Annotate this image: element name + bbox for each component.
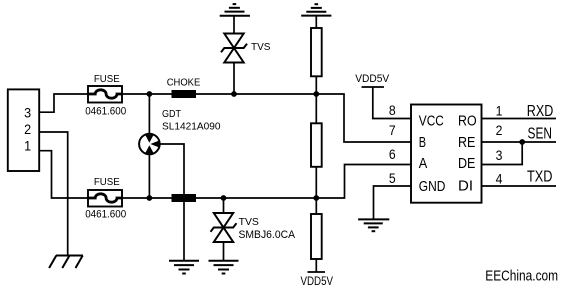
fuse F1 body [88, 86, 122, 103]
VDD5V power bar (bottom) [308, 271, 326, 273]
wire R1 to top bus [315, 76, 317, 94]
fuse F2 element (sine) [88, 194, 122, 202]
op-amp U1 (RS-485 transceiver) body [411, 105, 482, 203]
VDD5V power bar (top) [362, 86, 385, 88]
resistor R2 [311, 123, 322, 167]
svg-text:EEChina.com: EEChina.com [485, 268, 558, 285]
connector J1 body [8, 89, 39, 171]
wire pin 1 RO to RXD [482, 118, 557, 120]
wire top bus fuse to corner [122, 94, 411, 142]
wire pin1 stub to bottom bus [39, 151, 88, 198]
TVS D1 bottom triangle [224, 48, 243, 63]
wire pin3 stub to top bus [39, 94, 88, 112]
TVS D1 zener bar [221, 44, 247, 53]
svg-text:TVS: TVS [239, 216, 259, 228]
fuse F2 body [88, 190, 122, 207]
wire pin 5 to ground [374, 186, 412, 219]
fuse F1 element (sine) [88, 90, 122, 98]
node junction bottom R column [313, 195, 319, 201]
svg-text:8: 8 [389, 103, 396, 118]
TVS D2 zener bar [211, 223, 237, 232]
wire TVS2 to ground [223, 242, 225, 261]
resistor R3 [311, 214, 322, 259]
svg-text:1: 1 [24, 138, 31, 154]
wire pin 4 DI to TXD [482, 185, 557, 187]
wire R2 to bottom bus [315, 167, 317, 198]
wire pin 2 RE to SEN [482, 141, 557, 143]
svg-text:B: B [419, 135, 426, 151]
svg-text:TXD: TXD [527, 168, 553, 185]
node junction top GDT [147, 91, 153, 97]
svg-text:FUSE: FUSE [94, 73, 120, 85]
ground (top of TVS1, inverted) [220, 4, 250, 16]
svg-text:6: 6 [389, 147, 396, 162]
svg-text:3: 3 [496, 148, 503, 163]
ground (top of R1, inverted) [301, 4, 331, 15]
wire VDD5V to pin 8 [373, 87, 411, 119]
svg-text:SEN: SEN [528, 126, 553, 143]
svg-text:RO: RO [458, 114, 477, 130]
node junction SEN/DE [519, 139, 525, 145]
svg-text:VDD5V: VDD5V [301, 276, 334, 288]
wire TVS1 to top bus [233, 63, 235, 95]
wire GDT bottom lead [148, 154, 150, 198]
svg-text:0461.600: 0461.600 [85, 209, 126, 221]
wire SEN junction to pin 3 DE [482, 142, 523, 165]
svg-text:CHOKE: CHOKE [167, 76, 201, 88]
choke L1 winding (bottom) [172, 194, 197, 202]
node junction bottom GDT [147, 195, 153, 201]
wire GDT top lead [148, 94, 150, 134]
TVS D2 top triangle [214, 213, 233, 228]
svg-text:TVS: TVS [251, 41, 271, 53]
wire top bus to R2 [315, 94, 317, 123]
wire R3 to VDD5V bar [315, 259, 317, 272]
svg-text:VDD5V: VDD5V [355, 73, 390, 85]
node junction top R column [313, 91, 319, 97]
svg-text:1: 1 [496, 103, 503, 118]
svg-text:3: 3 [24, 104, 31, 120]
svg-text:5: 5 [389, 171, 396, 186]
wire bottom bus [122, 165, 411, 199]
wire pin2 stub down [39, 132, 67, 256]
svg-text:VCC: VCC [419, 114, 444, 130]
TVS D1 top triangle [224, 34, 243, 49]
wire ground to R1 [315, 16, 317, 28]
resistor R1 [311, 28, 322, 76]
svg-text:FUSE: FUSE [94, 176, 120, 188]
GDT arrow right [150, 140, 159, 147]
svg-text:DE: DE [458, 156, 476, 172]
svg-text:A: A [419, 156, 428, 172]
ground (TVS2) [209, 261, 239, 274]
svg-text:7: 7 [389, 123, 396, 138]
svg-text:GND: GND [419, 179, 446, 195]
svg-text:RXD: RXD [527, 103, 554, 120]
GDT arrow top [145, 135, 154, 143]
wire TVS2 branch [223, 198, 225, 213]
node junction bottom TVS2 [221, 195, 227, 201]
node junction top TVS1 [231, 91, 237, 97]
svg-text:SMBJ6.0CA: SMBJ6.0CA [239, 229, 296, 241]
GDT V1 circle [139, 134, 160, 155]
choke L1 winding (top) [172, 90, 197, 98]
wire ground to TVS1 [233, 16, 235, 34]
TVS D2 bottom triangle [214, 228, 233, 243]
svg-text:SL1421A090: SL1421A090 [162, 121, 221, 133]
wire bottom bus to R3 [315, 198, 317, 214]
wire GDT third electrode [160, 144, 184, 261]
chassis ground (pin 2) [49, 256, 83, 269]
svg-text:2: 2 [496, 123, 503, 138]
svg-text:2: 2 [24, 121, 31, 137]
GDT arrow bottom [145, 145, 154, 153]
ground (IC GND) [358, 219, 389, 231]
svg-text:DI: DI [458, 179, 473, 195]
svg-text:4: 4 [496, 172, 503, 187]
svg-text:0461.600: 0461.600 [85, 106, 126, 118]
ground (GDT electrode) [169, 261, 199, 274]
svg-text:GDT: GDT [162, 108, 181, 120]
svg-text:RE: RE [458, 135, 476, 151]
